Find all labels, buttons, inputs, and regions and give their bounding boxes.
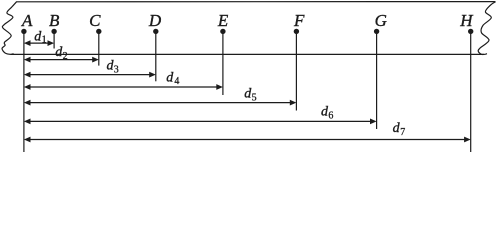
svg-text:6: 6 — [328, 110, 333, 121]
svg-text:G: G — [375, 11, 387, 30]
svg-text:2: 2 — [63, 51, 68, 62]
svg-text:C: C — [89, 11, 101, 30]
svg-text:3: 3 — [114, 64, 119, 75]
svg-text:4: 4 — [174, 76, 179, 87]
svg-text:E: E — [217, 11, 229, 30]
svg-text:H: H — [459, 11, 474, 30]
svg-text:1: 1 — [42, 35, 47, 46]
svg-text:d: d — [166, 71, 174, 86]
svg-text:B: B — [49, 11, 60, 30]
svg-text:5: 5 — [252, 92, 257, 103]
svg-text:A: A — [21, 11, 33, 30]
svg-text:7: 7 — [400, 127, 405, 138]
svg-text:D: D — [148, 11, 162, 30]
svg-text:F: F — [293, 11, 305, 30]
